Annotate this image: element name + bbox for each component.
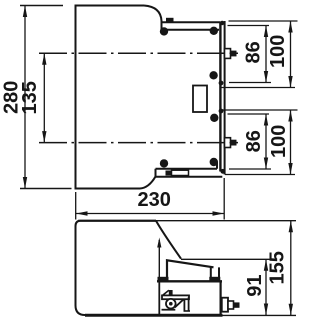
cable stud lower: [225, 138, 231, 148]
dim 91 line: [265, 259, 267, 315]
arrow 100b top: [288, 110, 292, 122]
corner dot top-right: [220, 21, 224, 25]
screw bottom-right corner: [210, 158, 218, 166]
svg-text:100: 100: [267, 35, 289, 68]
dim 100 top line: [290, 21, 292, 88]
arrow 280 top: [23, 6, 27, 18]
svg-text:100: 100: [268, 125, 290, 158]
right edge inner line: [219, 22, 221, 171]
svg-text:135: 135: [19, 81, 41, 114]
label rectangle: [193, 86, 207, 113]
top bracket plate: [162, 21, 221, 30]
arrow 86t bottom: [264, 71, 268, 83]
bottom bracket stud: [166, 171, 173, 176]
arrow 86t top: [264, 26, 268, 38]
svg-text:86: 86: [243, 130, 265, 152]
screw bottom-left of bottom bracket: [160, 159, 168, 167]
svg-text:230: 230: [138, 189, 171, 211]
side view base line: [85, 314, 223, 317]
arrow 100t bottom: [288, 76, 292, 88]
arrow 135 bottom: [42, 131, 46, 143]
side view outline left: [76, 221, 157, 315]
switch box divider line: [157, 280, 222, 282]
arrow 230 right: [213, 211, 225, 215]
ext lines 86/100 top set: [221, 21, 298, 88]
cable stud upper: [225, 49, 231, 59]
left post foot: [158, 277, 169, 282]
cable gland neck: [228, 301, 234, 309]
dim 91 top ext line: [181, 258, 270, 260]
svg-text:91: 91: [244, 275, 266, 297]
switch box right clip: [211, 267, 219, 281]
arrow 155 top: [289, 221, 293, 233]
screw top-left of top bracket: [160, 27, 168, 35]
top view: bottom-right S-curve: [140, 177, 156, 189]
mechanism tab: [169, 290, 173, 296]
arrow 155 bottom: [289, 304, 293, 316]
corner dot bottom-right: [220, 169, 225, 174]
dim 280 line: [24, 6, 26, 189]
arrow 91 top: [264, 259, 268, 271]
top bracket stud: [166, 18, 174, 23]
switch box left edge: [158, 281, 160, 315]
mechanism shelf: [162, 309, 176, 311]
switch box upper trapezoid: [167, 260, 214, 281]
bottom bracket plate: [156, 162, 223, 177]
pedal arm vertical with arrow: [158, 240, 160, 315]
base ext line: [223, 314, 297, 316]
arrow 86b top: [264, 114, 268, 126]
screw right edge upper-box bottom: [209, 71, 217, 79]
right edge outer line: [224, 21, 226, 175]
right post foot: [209, 277, 220, 282]
cable gland flange: [222, 298, 228, 312]
dim 86 top line: [265, 26, 267, 83]
screw top-right corner: [210, 27, 218, 35]
centerline lower: [39, 142, 238, 144]
mechanism lower stub: [184, 310, 191, 312]
arrow 91 bottom: [264, 304, 268, 316]
arrow 100b bottom: [288, 163, 292, 175]
top view: bottom edge with 280 extension: [20, 188, 72, 190]
cable gland tip: [234, 302, 240, 307]
mechanism lever left diagonal: [163, 290, 169, 295]
side view pedal slope: [156, 221, 181, 259]
dim 86 bottom line: [265, 114, 267, 169]
ext lines 86/100 bottom set: [221, 110, 298, 175]
top view: body left edge: [75, 6, 77, 189]
corner dot upper-box bottom: [219, 81, 224, 86]
bottom bracket slot: [172, 170, 189, 175]
dim 230 line: [76, 213, 224, 215]
dim 100 bottom line: [290, 110, 292, 175]
mechanism roller: [166, 299, 176, 309]
mechanism bar: [162, 295, 189, 299]
top view: top edge with 280 extension: [20, 5, 63, 7]
arrow 230 left: [76, 211, 88, 215]
screw right edge lower-box top: [210, 114, 218, 122]
corner dot lower-box top: [219, 109, 224, 114]
svg-text:155: 155: [266, 251, 288, 284]
centerline upper: [39, 52, 238, 54]
dim 135 line: [43, 53, 45, 142]
mechanism verticals: [184, 297, 188, 311]
dim 230 ext lines: [76, 178, 225, 220]
arrow 100t top: [288, 21, 292, 33]
arrow 280 bottom: [23, 177, 27, 189]
side view top edge + 155 ext: [78, 220, 156, 222]
arrow 135 top: [42, 53, 46, 64]
mechanism lever diagonal: [175, 300, 184, 308]
arrow 86b bottom: [264, 158, 268, 170]
switch box right edge: [220, 281, 222, 315]
top view: top-right corner radius: [144, 6, 162, 22]
dim 155 line: [290, 221, 292, 315]
svg-text:86: 86: [242, 41, 264, 63]
